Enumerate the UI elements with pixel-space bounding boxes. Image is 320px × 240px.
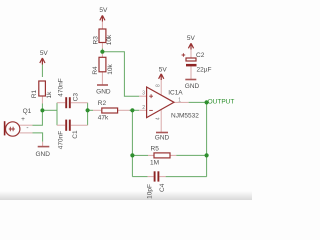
capacitor C1 plates bbox=[66, 120, 70, 131]
node R3R4 junction bbox=[100, 50, 104, 54]
resistor R1 body bbox=[39, 81, 46, 96]
pin R4 top bbox=[101, 54, 103, 58]
wire R2 to pin2 bbox=[130, 109, 140, 111]
wire mic plus vertical bbox=[33, 110, 43, 125]
wire caps left rail bbox=[56, 103, 58, 126]
ground under R4 bbox=[97, 84, 108, 86]
svg-text:4: 4 bbox=[156, 117, 162, 120]
svg-text:R2: R2 bbox=[98, 100, 107, 107]
node R5 left junction bbox=[130, 153, 134, 157]
svg-text:GND: GND bbox=[35, 151, 50, 158]
pin opamp 3 bbox=[139, 95, 146, 97]
pin opamp 8 bbox=[160, 79, 162, 95]
svg-text:OUTPUT: OUTPUT bbox=[208, 99, 235, 106]
resistor R4 body bbox=[99, 57, 106, 72]
node A junction bbox=[40, 108, 44, 112]
svg-text:GND: GND bbox=[155, 134, 170, 141]
pin opamp 4 bbox=[160, 110, 162, 133]
svg-text:C3: C3 bbox=[73, 93, 80, 102]
ground under mic bbox=[38, 146, 50, 148]
pin C4 left bbox=[148, 176, 154, 178]
pin C1 left bbox=[57, 124, 65, 126]
svg-text:NJM5532: NJM5532 bbox=[171, 113, 199, 120]
wire bias to pin3 bbox=[102, 52, 139, 96]
pin opamp 2 bbox=[139, 109, 146, 111]
svg-text:GND: GND bbox=[185, 83, 200, 90]
node pin2 junction bbox=[130, 108, 134, 112]
svg-text:2: 2 bbox=[142, 105, 145, 111]
pin C4 right bbox=[159, 176, 165, 178]
svg-text:5V: 5V bbox=[187, 35, 196, 42]
ground under opamp pin4 bbox=[156, 132, 168, 134]
pin R4 bottom bbox=[101, 71, 103, 85]
microphone Q1 bbox=[4, 121, 20, 136]
pin mic minus bbox=[20, 132, 33, 134]
wire R1 top to 5V bbox=[41, 65, 43, 78]
svg-text:C4: C4 bbox=[159, 183, 166, 192]
svg-text:1M: 1M bbox=[150, 160, 159, 167]
supply 5V arrow at C2 bbox=[188, 43, 193, 49]
resistor R5 body bbox=[154, 153, 170, 158]
svg-text:22µF: 22µF bbox=[197, 67, 212, 74]
op-amp U1 triangle bbox=[147, 87, 174, 118]
svg-text:5V: 5V bbox=[40, 50, 49, 57]
wire R1 bottom to node A bbox=[41, 104, 43, 111]
pin C2 top bbox=[190, 49, 192, 59]
svg-text:470nF: 470nF bbox=[57, 131, 64, 149]
op-amp plus input mark bbox=[149, 94, 153, 98]
svg-text:8: 8 bbox=[156, 84, 162, 87]
capacitor C3 plates bbox=[66, 97, 70, 108]
svg-text:10k: 10k bbox=[106, 34, 113, 45]
supply 5V arrow at R1 bbox=[40, 58, 45, 65]
supply 5V arrow at pin8 bbox=[159, 74, 164, 80]
pin C3 right bbox=[71, 102, 88, 104]
resistor R2 body bbox=[102, 108, 118, 113]
node caps-R2 junction bbox=[86, 108, 90, 112]
svg-text:3: 3 bbox=[142, 90, 145, 96]
wire C4 row right bbox=[166, 176, 207, 178]
pin mic plus bbox=[20, 124, 33, 126]
capacitor C2 polarized bbox=[186, 58, 197, 66]
wire output bbox=[189, 101, 208, 103]
node R5 right junction bbox=[205, 153, 209, 157]
svg-text:10pF: 10pF bbox=[146, 184, 153, 199]
svg-text:10k: 10k bbox=[107, 64, 114, 75]
svg-text:R3: R3 bbox=[93, 36, 100, 45]
svg-text:5V: 5V bbox=[99, 7, 108, 14]
wire caps right rail bbox=[87, 103, 89, 126]
wire feedback left vertical bbox=[131, 110, 133, 176]
bottom window band bbox=[0, 191, 252, 200]
wire node A to caps left rail bbox=[42, 109, 57, 111]
pin C1 right bbox=[71, 124, 88, 126]
svg-text:470nF: 470nF bbox=[57, 78, 64, 96]
svg-text:R1: R1 bbox=[31, 89, 38, 98]
svg-text:1k: 1k bbox=[46, 91, 53, 99]
pin opamp 1 out bbox=[175, 101, 189, 103]
pin R5 left bbox=[148, 154, 154, 156]
svg-text:Q1: Q1 bbox=[23, 108, 32, 115]
pin R2 left bbox=[93, 109, 101, 111]
svg-text:47k: 47k bbox=[98, 114, 109, 121]
node output junction bbox=[205, 100, 209, 104]
pin mic gnd bbox=[42, 142, 44, 146]
svg-text:C2: C2 bbox=[196, 52, 205, 59]
C2 plus mark bbox=[182, 53, 186, 57]
wire R5 row right bbox=[176, 154, 206, 156]
wire feedback right vertical bbox=[206, 102, 208, 176]
wire C4 row left bbox=[132, 176, 147, 178]
svg-text:R5: R5 bbox=[151, 145, 160, 152]
wire R5 row left bbox=[132, 154, 148, 156]
wire right rail to R2 bbox=[88, 109, 93, 111]
pin C3 left bbox=[57, 102, 65, 104]
pin R5 right bbox=[170, 154, 176, 156]
op-amp minus input mark bbox=[149, 109, 153, 111]
pin R1 top bbox=[41, 59, 43, 65]
wire R3 R4 junction bbox=[101, 49, 103, 54]
pin R3 top bbox=[101, 22, 103, 30]
svg-text:5V: 5V bbox=[159, 67, 168, 74]
wire mic minus to gnd bbox=[33, 133, 43, 142]
svg-text:-: - bbox=[26, 125, 28, 132]
pin C2 bottom bbox=[190, 66, 192, 79]
pin R3 bottom bbox=[101, 43, 103, 49]
svg-text:C1: C1 bbox=[72, 130, 79, 139]
svg-text:R4: R4 bbox=[92, 66, 99, 75]
supply 5V arrow at R3 bbox=[100, 15, 105, 21]
pin R2 right bbox=[117, 109, 130, 111]
svg-text:1: 1 bbox=[178, 98, 181, 104]
capacitor C4 plates bbox=[155, 171, 159, 181]
svg-text:+: + bbox=[21, 116, 25, 123]
resistor R3 body bbox=[99, 29, 106, 43]
pin R1 bottom bbox=[41, 96, 43, 104]
svg-text:GND: GND bbox=[96, 89, 111, 96]
svg-text:IC1A: IC1A bbox=[168, 90, 183, 97]
ground under C2 bbox=[185, 79, 196, 81]
